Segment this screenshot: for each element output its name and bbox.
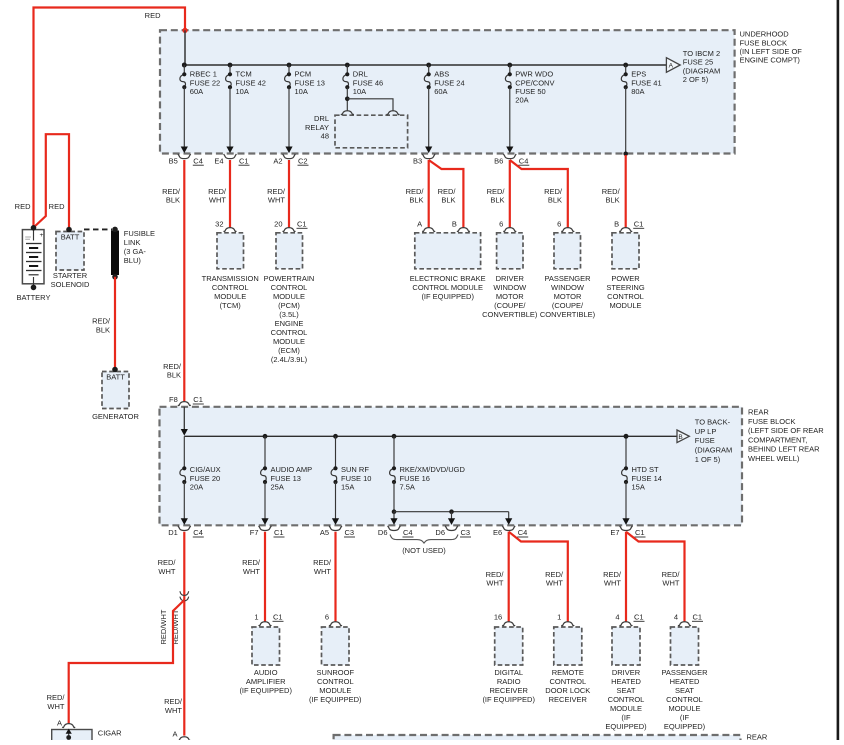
svg-text:ENGINE: ENGINE	[275, 319, 304, 328]
svg-text:REAR: REAR	[747, 733, 768, 740]
off-page arrow B: TO BACK-UP LP FUSE (DIAGRAM 1 OF 5)	[624, 418, 733, 464]
bottom rear block (cut off)	[334, 733, 768, 745]
connector exit D1 C4	[168, 518, 204, 537]
svg-text:RED/: RED/	[438, 187, 457, 196]
svg-text:A: A	[172, 729, 177, 738]
wire RED/BLK B6 to passenger window motor	[510, 160, 568, 228]
svg-text:A: A	[57, 718, 62, 727]
svg-text:RED/: RED/	[662, 570, 681, 579]
svg-text:CONTROL: CONTROL	[271, 328, 308, 337]
svg-text:SEAT: SEAT	[675, 686, 694, 695]
svg-text:FUSIBLE: FUSIBLE	[124, 229, 155, 238]
svg-text:B: B	[452, 220, 457, 229]
wire RED/WHT E4 to TCM	[208, 160, 230, 228]
svg-text:RED/: RED/	[158, 558, 177, 567]
svg-text:A: A	[669, 63, 674, 70]
svg-text:1: 1	[557, 613, 561, 622]
fuse SUN RF (FUSE 10)	[331, 434, 371, 492]
fuse DRL (FUSE 46)	[343, 63, 383, 96]
svg-text:MODULE: MODULE	[609, 301, 641, 310]
wire RED/BLK fusible link to generator	[92, 277, 115, 369]
svg-text:PASSENGER: PASSENGER	[661, 668, 708, 677]
svg-text:ABS: ABS	[434, 70, 449, 79]
svg-text:STARTER: STARTER	[53, 271, 88, 280]
svg-text:FUSE 10: FUSE 10	[341, 474, 371, 483]
svg-text:32: 32	[215, 220, 223, 229]
fuse RBEC 1 (FUSE 22)	[180, 63, 220, 96]
svg-text:(LEFT SIDE OF REAR: (LEFT SIDE OF REAR	[748, 426, 824, 435]
wire RED/BLK B3 to EBCM pin B	[429, 160, 464, 228]
svg-text:(COUPE/: (COUPE/	[552, 301, 584, 310]
svg-text:C1: C1	[693, 613, 703, 622]
svg-text:BATTERY: BATTERY	[17, 293, 51, 302]
svg-text:(DIAGRAM: (DIAGRAM	[683, 66, 721, 75]
svg-text:CONTROL MODULE: CONTROL MODULE	[412, 283, 483, 292]
svg-text:RED/: RED/	[164, 697, 183, 706]
svg-text:C4: C4	[193, 528, 203, 537]
wire RED battery to underhood fuse block	[34, 8, 186, 229]
wire RBEC fuse to exit B5	[183, 87, 185, 147]
node: red feed entry dot	[182, 28, 187, 33]
label RED/WHT above bottom A pin	[164, 697, 183, 715]
audio amplifier	[239, 613, 292, 696]
svg-text:CONTROL: CONTROL	[608, 695, 645, 704]
svg-text:B5: B5	[169, 156, 178, 165]
wire RED/BLK B3 to EBCM pin A	[406, 160, 429, 228]
svg-text:A: A	[417, 220, 422, 229]
wire CIG/AUX fuse to block exit	[183, 482, 185, 519]
label RED at battery	[15, 202, 31, 211]
svg-text:HEATED: HEATED	[670, 677, 700, 686]
DRL relay 48	[305, 111, 408, 148]
svg-text:(ECM): (ECM)	[278, 346, 300, 355]
svg-text:10A: 10A	[295, 87, 308, 96]
wire PCM fuse to exit A2	[288, 87, 290, 147]
fuse PWR WDO (FUSE 50)	[505, 63, 554, 105]
svg-text:C1: C1	[634, 220, 644, 229]
svg-text:DRIVER: DRIVER	[496, 274, 525, 283]
svg-text:RED/: RED/	[313, 558, 332, 567]
fusible link (3 GA-BLU)	[111, 227, 155, 280]
(NOT USED) bracket	[390, 535, 458, 556]
svg-text:(COUPE/: (COUPE/	[494, 301, 526, 310]
wire EPS fuse through block edge	[623, 87, 628, 156]
svg-text:CONTROL: CONTROL	[549, 677, 586, 686]
svg-text:RED/: RED/	[92, 317, 111, 326]
svg-text:RED/: RED/	[487, 187, 506, 196]
svg-text:RED/: RED/	[163, 362, 182, 371]
svg-text:WHT: WHT	[158, 567, 175, 576]
remote control door lock receiver	[545, 613, 590, 705]
svg-text:C1: C1	[239, 156, 249, 165]
svg-text:B3: B3	[413, 156, 422, 165]
connector exit D6 C4	[378, 518, 414, 537]
rotated labels RED/WHT at splice	[159, 609, 180, 644]
svg-text:RECEIVER: RECEIVER	[549, 695, 588, 704]
svg-text:RKE/XM/DVD/UGD: RKE/XM/DVD/UGD	[400, 465, 466, 474]
svg-text:SOLENOID: SOLENOID	[51, 280, 90, 289]
svg-text:4: 4	[674, 613, 678, 622]
electronic brake control module	[410, 220, 486, 302]
svg-text:CIGAR: CIGAR	[98, 728, 122, 737]
svg-text:DOOR LOCK: DOOR LOCK	[545, 686, 590, 695]
dashed wire solenoid to fusible link	[84, 228, 112, 230]
svg-text:DRIVER: DRIVER	[612, 668, 641, 677]
svg-text:CONVERTIBLE): CONVERTIBLE)	[482, 310, 538, 319]
fuse EPS (FUSE 41)	[621, 63, 661, 96]
svg-text:REAR: REAR	[748, 408, 769, 417]
svg-text:MODULE: MODULE	[668, 704, 700, 713]
svg-text:FUSE 22: FUSE 22	[190, 78, 220, 87]
page right border	[837, 0, 840, 740]
svg-text:WHEEL WELL): WHEEL WELL)	[748, 454, 800, 463]
svg-text:UP LP: UP LP	[695, 427, 717, 436]
svg-text:(3 GA-: (3 GA-	[124, 247, 147, 256]
svg-text:BEHIND LEFT REAR: BEHIND LEFT REAR	[748, 445, 820, 454]
connector F8 C1 entry	[169, 395, 204, 405]
sunroof control module	[309, 613, 362, 705]
svg-text:6: 6	[499, 220, 503, 229]
fuse ABS (FUSE 24)	[424, 63, 464, 96]
starter solenoid	[51, 227, 90, 289]
wire RED/WHT F7 to audio amplifier	[242, 532, 265, 622]
svg-text:CONTROL: CONTROL	[666, 695, 703, 704]
connector exit E6 C4	[493, 518, 528, 537]
svg-text:(TCM): (TCM)	[220, 301, 242, 310]
svg-text:BLK: BLK	[606, 196, 620, 205]
svg-text:FUSE 46: FUSE 46	[353, 78, 383, 87]
svg-text:BLK: BLK	[96, 325, 110, 334]
rear bus wire	[184, 435, 677, 437]
svg-text:RED/: RED/	[242, 558, 261, 567]
svg-text:WHT: WHT	[314, 567, 331, 576]
svg-text:25A: 25A	[271, 483, 284, 492]
wire RED/WHT E6 to digital radio receiver	[486, 532, 509, 622]
underhood fuse block	[160, 30, 735, 153]
svg-text:RED/: RED/	[162, 187, 181, 196]
svg-text:C1: C1	[193, 395, 203, 404]
svg-text:EPS: EPS	[631, 70, 646, 79]
svg-text:E7: E7	[610, 528, 619, 537]
svg-text:PWR WDO: PWR WDO	[515, 70, 553, 79]
svg-text:C4: C4	[193, 156, 203, 165]
svg-text:(2.4L/3.9L): (2.4L/3.9L)	[271, 355, 308, 364]
svg-text:C4: C4	[519, 156, 529, 165]
svg-text:20A: 20A	[515, 96, 528, 105]
svg-text:D1: D1	[168, 528, 178, 537]
svg-text:EQUIPPED): EQUIPPED)	[605, 722, 647, 731]
wire RKE fuse to not-used sub-bus	[392, 482, 509, 519]
svg-text:16: 16	[494, 613, 502, 622]
wire F8 entry to rear bus	[181, 407, 188, 436]
fuse RKE/XM/DVD/UGD (FUSE 16)	[390, 434, 466, 492]
fuse CIG/AUX (FUSE 20)	[180, 436, 221, 491]
fuse HTD ST (FUSE 14)	[622, 434, 662, 492]
off-page arrow A: TO IBCM 2 FUSE 25 (DIAGRAM 2 OF 5)	[666, 49, 720, 84]
svg-text:WHT: WHT	[604, 579, 621, 588]
svg-text:AUDIO AMP: AUDIO AMP	[271, 465, 313, 474]
wire RED/WHT D1 to splice	[158, 532, 185, 736]
svg-text:MOTOR: MOTOR	[496, 292, 524, 301]
wire entry drop to bus	[184, 30, 186, 65]
driver heated seat control module	[605, 613, 647, 732]
svg-text:BLK: BLK	[166, 196, 180, 205]
svg-text:COMPARTMENT,: COMPARTMENT,	[748, 435, 807, 444]
underhood bus wire	[182, 63, 667, 68]
svg-text:RED/: RED/	[602, 187, 621, 196]
svg-text:RED: RED	[145, 11, 161, 20]
svg-text:A5: A5	[320, 528, 329, 537]
svg-text:10A: 10A	[353, 87, 366, 96]
wire RED/WHT E6 to remote control door lock receiver	[509, 532, 568, 622]
svg-text:HTD ST: HTD ST	[632, 465, 660, 474]
connector exit B5 C4	[169, 147, 204, 166]
svg-text:FUSE BLOCK: FUSE BLOCK	[748, 417, 796, 426]
svg-text:C2: C2	[298, 156, 308, 165]
svg-text:C1: C1	[274, 528, 284, 537]
svg-text:RED: RED	[49, 202, 65, 211]
svg-text:SEAT: SEAT	[616, 686, 635, 695]
svg-text:(IF EQUIPPED): (IF EQUIPPED)	[239, 686, 292, 695]
svg-text:BLK: BLK	[441, 196, 455, 205]
digital radio receiver	[482, 613, 535, 705]
connector exit E4 C1	[214, 147, 249, 166]
svg-text:FUSE 50: FUSE 50	[515, 87, 545, 96]
svg-text:MOTOR: MOTOR	[554, 292, 582, 301]
wire HTD ST fuse to block exit	[625, 482, 627, 519]
svg-text:STEERING: STEERING	[606, 283, 645, 292]
svg-text:WHT: WHT	[209, 196, 226, 205]
svg-text:SUNROOF: SUNROOF	[317, 668, 355, 677]
passenger heated seat control module	[661, 613, 708, 732]
svg-text:FUSE 13: FUSE 13	[295, 78, 325, 87]
wire ABS fuse to exit B3	[428, 87, 430, 147]
svg-text:RED/: RED/	[544, 187, 563, 196]
driver window motor	[482, 220, 538, 320]
battery	[17, 225, 51, 302]
svg-text:FUSE 25: FUSE 25	[683, 58, 713, 67]
svg-text:RED/: RED/	[47, 693, 66, 702]
connector pin A at page bottom	[172, 729, 190, 740]
wire RED/WHT A5 to sunroof control module	[313, 532, 335, 622]
svg-text:FUSE 16: FUSE 16	[400, 474, 430, 483]
connector exit A5 C3	[320, 518, 355, 537]
connector exit D6 C3	[435, 518, 471, 537]
svg-text:WHT: WHT	[662, 579, 679, 588]
svg-text:4: 4	[615, 613, 619, 622]
fuse AUDIO AMP (FUSE 13)	[261, 434, 313, 492]
svg-text:C1: C1	[273, 613, 283, 622]
svg-text:RADIO: RADIO	[497, 677, 521, 686]
svg-text:(PCM): (PCM)	[278, 301, 300, 310]
generator	[92, 367, 139, 421]
svg-text:WHT: WHT	[243, 567, 260, 576]
svg-text:CONTROL: CONTROL	[607, 292, 644, 301]
svg-text:1: 1	[254, 613, 258, 622]
svg-text:CONTROL: CONTROL	[317, 677, 354, 686]
svg-text:ELECTRONIC BRAKE: ELECTRONIC BRAKE	[410, 274, 486, 283]
transmission control module (TCM)	[202, 220, 259, 311]
svg-text:TRANSMISSION: TRANSMISSION	[202, 274, 259, 283]
svg-text:BLK: BLK	[490, 196, 504, 205]
svg-text:FUSE 42: FUSE 42	[236, 78, 266, 87]
svg-text:1 OF 5): 1 OF 5)	[695, 455, 721, 464]
svg-text:10A: 10A	[236, 87, 249, 96]
wire PWR WDO fuse to exit B6	[509, 87, 511, 147]
svg-text:20A: 20A	[190, 483, 203, 492]
svg-text:WHT: WHT	[546, 579, 563, 588]
svg-text:(IF: (IF	[621, 713, 631, 722]
svg-text:C1: C1	[297, 220, 307, 229]
svg-text:(IF: (IF	[680, 713, 690, 722]
svg-text:B: B	[678, 434, 683, 441]
svg-text:(IF EQUIPPED): (IF EQUIPPED)	[482, 695, 535, 704]
svg-text:2 OF 5): 2 OF 5)	[683, 75, 709, 84]
svg-text:RED: RED	[15, 202, 31, 211]
svg-text:WHT: WHT	[47, 702, 64, 711]
svg-text:AMPLIFIER: AMPLIFIER	[246, 677, 286, 686]
svg-text:MODULE: MODULE	[273, 292, 305, 301]
svg-text:CPE/CONV: CPE/CONV	[515, 78, 554, 87]
connector exit B6 C4	[494, 147, 529, 166]
wire RED/WHT E7 to driver heated seat module	[603, 532, 626, 622]
powertrain control module (PCM/ECM)	[264, 220, 315, 365]
svg-text:DIGITAL: DIGITAL	[494, 668, 523, 677]
svg-text:FUSE 14: FUSE 14	[632, 474, 662, 483]
inline connector on D1 wire	[180, 591, 189, 601]
svg-text:(IF EQUIPPED): (IF EQUIPPED)	[309, 695, 362, 704]
svg-text:7.5A: 7.5A	[400, 483, 415, 492]
svg-text:RED/: RED/	[545, 570, 564, 579]
svg-text:REMOTE: REMOTE	[552, 668, 584, 677]
wire SUN RF fuse to block exit	[335, 482, 337, 519]
svg-text:FUSE 20: FUSE 20	[190, 474, 220, 483]
svg-text:FUSE 24: FUSE 24	[434, 78, 464, 87]
svg-text:GENERATOR: GENERATOR	[92, 412, 139, 421]
svg-text:POWERTRAIN: POWERTRAIN	[264, 274, 315, 283]
svg-text:CONTROL: CONTROL	[271, 283, 308, 292]
svg-text:RED/: RED/	[603, 570, 622, 579]
svg-text:D6: D6	[378, 528, 388, 537]
svg-text:TO BACK-: TO BACK-	[695, 418, 731, 427]
power steering control module	[606, 220, 645, 311]
svg-text:(3.5L): (3.5L)	[279, 310, 299, 319]
svg-text:SUN RF: SUN RF	[341, 465, 369, 474]
fuse PCM (FUSE 13)	[285, 63, 325, 96]
svg-text:PASSENGER: PASSENGER	[544, 274, 591, 283]
wire RED/BLK EPS to power steering module	[602, 155, 626, 228]
fuse TCM (FUSE 42)	[226, 63, 266, 96]
svg-text:BATT: BATT	[106, 373, 125, 382]
svg-text:C4: C4	[518, 528, 528, 537]
svg-text:BLK: BLK	[548, 196, 562, 205]
svg-text:15A: 15A	[632, 483, 645, 492]
svg-text:A2: A2	[273, 156, 282, 165]
svg-text:UNDERHOOD: UNDERHOOD	[740, 30, 790, 39]
wire RED/WHT branch to cigar lighter	[47, 600, 185, 724]
svg-text:CIG/AUX: CIG/AUX	[190, 465, 221, 474]
svg-text:CONTROL: CONTROL	[212, 283, 249, 292]
svg-text:WHT: WHT	[268, 196, 285, 205]
passenger window motor	[540, 220, 596, 320]
wire RED/BLK B5 to rear block F8	[162, 160, 184, 402]
svg-text:E6: E6	[493, 528, 502, 537]
svg-text:RED/: RED/	[486, 570, 505, 579]
svg-text:15A: 15A	[341, 483, 354, 492]
svg-text:BLK: BLK	[409, 196, 423, 205]
svg-text:6: 6	[325, 613, 329, 622]
svg-text:(DIAGRAM: (DIAGRAM	[695, 446, 733, 455]
connector exit F7 C1	[250, 518, 285, 537]
svg-text:BLU): BLU)	[124, 256, 142, 265]
cigar lighter	[52, 718, 122, 741]
svg-text:80A: 80A	[631, 87, 644, 96]
svg-text:BATT: BATT	[61, 232, 80, 241]
svg-text:C1: C1	[634, 613, 644, 622]
svg-text:MODULE: MODULE	[610, 704, 642, 713]
svg-text:E4: E4	[214, 156, 223, 165]
svg-text:WINDOW: WINDOW	[493, 283, 527, 292]
svg-text:FUSE: FUSE	[695, 436, 715, 445]
svg-text:F7: F7	[250, 528, 259, 537]
svg-text:C4: C4	[403, 528, 413, 537]
svg-text:(NOT USED): (NOT USED)	[402, 546, 446, 555]
svg-text:20: 20	[274, 220, 282, 229]
svg-text:MODULE: MODULE	[273, 337, 305, 346]
svg-text:48: 48	[321, 132, 329, 141]
svg-text:RECEIVER: RECEIVER	[490, 686, 529, 695]
svg-text:B6: B6	[494, 156, 503, 165]
svg-text:AUDIO: AUDIO	[254, 668, 278, 677]
svg-text:WHT: WHT	[486, 579, 503, 588]
wire RED/BLK B6 to driver window motor	[487, 160, 510, 228]
wire DRL fuse to DRL relay	[345, 87, 393, 111]
svg-text:WINDOW: WINDOW	[551, 283, 585, 292]
svg-text:RED/: RED/	[267, 187, 286, 196]
svg-text:6: 6	[557, 220, 561, 229]
svg-text:C3: C3	[345, 528, 355, 537]
svg-text:RED/WHT: RED/WHT	[159, 609, 168, 644]
svg-text:60A: 60A	[190, 87, 203, 96]
svg-text:POWER: POWER	[611, 274, 640, 283]
svg-text:HEATED: HEATED	[611, 677, 641, 686]
svg-text:BLK: BLK	[167, 371, 181, 380]
svg-text:MODULE: MODULE	[319, 686, 351, 695]
wire RED/WHT E7 to passenger heated seat module	[626, 532, 685, 622]
svg-text:F8: F8	[169, 395, 178, 404]
svg-text:60A: 60A	[434, 87, 447, 96]
svg-text:WHT: WHT	[165, 706, 182, 715]
svg-text:FUSE BLOCK: FUSE BLOCK	[740, 38, 788, 47]
svg-text:B: B	[614, 220, 619, 229]
label RED at solenoid branch	[49, 202, 65, 211]
svg-text:PCM: PCM	[295, 70, 312, 79]
underhood fuse block label	[740, 30, 803, 65]
svg-text:DRL: DRL	[353, 70, 368, 79]
rear fuse block label	[748, 408, 824, 464]
svg-text:CONVERTIBLE): CONVERTIBLE)	[540, 310, 596, 319]
connector exit A2 C2	[273, 147, 308, 166]
wire TCM fuse to exit E4	[229, 87, 231, 147]
svg-text:RBEC 1: RBEC 1	[190, 70, 217, 79]
svg-text:DRL: DRL	[314, 114, 329, 123]
svg-text:D6: D6	[435, 528, 445, 537]
svg-text:+: +	[40, 232, 44, 239]
svg-text:TCM: TCM	[236, 70, 252, 79]
svg-text:(IN LEFT SIDE OF: (IN LEFT SIDE OF	[740, 47, 803, 56]
svg-text:ENGINE COMPT): ENGINE COMPT)	[740, 56, 801, 65]
rear fuse block	[160, 407, 743, 526]
